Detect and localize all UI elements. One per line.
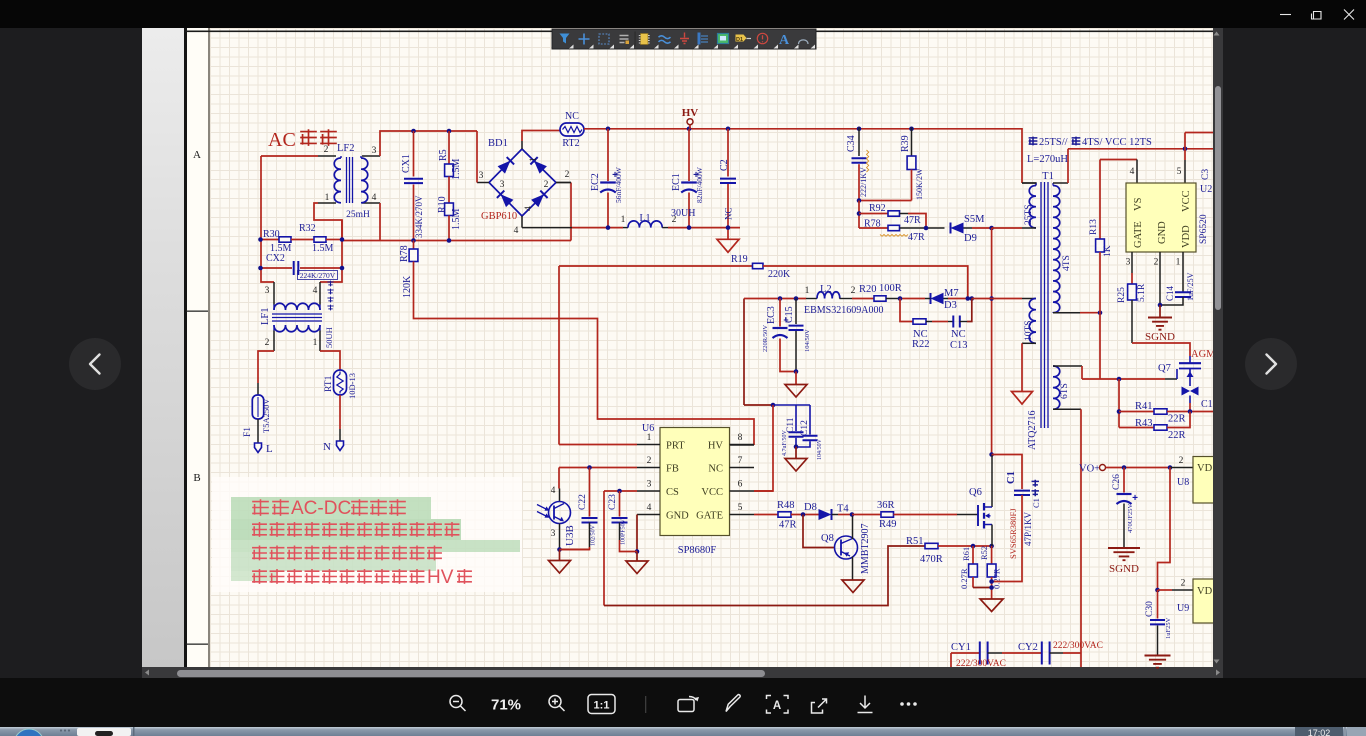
svg-text:36R: 36R bbox=[877, 500, 895, 511]
svg-text:HV: HV bbox=[682, 107, 699, 119]
svg-text:C22: C22 bbox=[578, 494, 588, 510]
svg-text:C13: C13 bbox=[950, 340, 968, 351]
svg-text:D1: D1 bbox=[736, 37, 743, 43]
svg-text:R49: R49 bbox=[879, 519, 897, 530]
svg-text:U9: U9 bbox=[1177, 603, 1189, 614]
svg-text:SVS65R380FJ: SVS65R380FJ bbox=[1008, 508, 1018, 559]
svg-text:C15: C15 bbox=[784, 306, 795, 323]
svg-text:50UH: 50UH bbox=[324, 327, 334, 348]
svg-text:2: 2 bbox=[1179, 456, 1184, 466]
svg-text:2: 2 bbox=[647, 456, 652, 466]
svg-text:1: 1 bbox=[1176, 258, 1181, 268]
svg-text:GBP610: GBP610 bbox=[481, 211, 517, 222]
svg-text:150K/2W: 150K/2W bbox=[915, 168, 924, 200]
svg-text:VD: VD bbox=[1197, 586, 1213, 597]
svg-text:102/50V: 102/50V bbox=[591, 524, 597, 546]
svg-text:R52: R52 bbox=[979, 546, 989, 560]
svg-text:CX1: CX1 bbox=[401, 154, 412, 173]
svg-text:T5A250V: T5A250V bbox=[261, 398, 271, 433]
svg-text:3: 3 bbox=[479, 171, 484, 181]
svg-text:1: 1 bbox=[647, 433, 652, 443]
svg-text:VD: VD bbox=[1197, 463, 1213, 474]
svg-text:D3: D3 bbox=[944, 300, 957, 311]
svg-text:4: 4 bbox=[524, 206, 534, 211]
svg-text:BD1: BD1 bbox=[488, 138, 508, 149]
svg-text:R19: R19 bbox=[731, 254, 748, 265]
svg-text:3: 3 bbox=[551, 529, 556, 539]
svg-text:VO+: VO+ bbox=[1079, 464, 1100, 475]
svg-text:3: 3 bbox=[1126, 258, 1131, 268]
svg-text:U2: U2 bbox=[1200, 184, 1212, 195]
svg-text:3: 3 bbox=[372, 146, 377, 156]
svg-text:4TS: 4TS bbox=[1062, 255, 1072, 271]
svg-text:R20: R20 bbox=[859, 284, 877, 295]
svg-text:0.27R: 0.27R bbox=[959, 568, 969, 589]
svg-text:2: 2 bbox=[565, 170, 570, 180]
svg-text:GATE: GATE bbox=[1133, 221, 1144, 248]
svg-text:1.5M: 1.5M bbox=[451, 209, 462, 231]
svg-text:C3: C3 bbox=[1201, 169, 1211, 180]
svg-text:1: 1 bbox=[529, 157, 539, 162]
svg-text:HV: HV bbox=[427, 567, 454, 588]
svg-text:470R: 470R bbox=[920, 554, 943, 565]
svg-text:100R: 100R bbox=[879, 283, 902, 294]
svg-text:7: 7 bbox=[738, 456, 743, 466]
svg-text:2: 2 bbox=[1181, 579, 1186, 589]
svg-text:C1: C1 bbox=[1031, 498, 1041, 508]
svg-text:2: 2 bbox=[265, 338, 270, 348]
svg-text:C1: C1 bbox=[1006, 471, 1017, 484]
svg-text:CY1: CY1 bbox=[951, 642, 971, 653]
svg-text:Q7: Q7 bbox=[1158, 363, 1171, 374]
svg-text:1uF/25V: 1uF/25V bbox=[1186, 272, 1195, 301]
svg-text:104/50V: 104/50V bbox=[817, 438, 823, 460]
svg-text:A: A bbox=[193, 149, 201, 161]
svg-text:2: 2 bbox=[1154, 258, 1159, 268]
svg-text:GND: GND bbox=[1157, 221, 1168, 244]
svg-text:LF1: LF1 bbox=[260, 307, 271, 325]
svg-text:L=270uH: L=270uH bbox=[1027, 154, 1068, 165]
svg-text:ATQ2716: ATQ2716 bbox=[1027, 411, 1038, 450]
svg-text:S5M: S5M bbox=[964, 214, 985, 225]
svg-text:47R: 47R bbox=[908, 232, 925, 243]
svg-text:A: A bbox=[773, 700, 781, 712]
svg-text:56nF/400W: 56nF/400W bbox=[614, 166, 623, 203]
svg-text:L: L bbox=[266, 443, 273, 455]
svg-text:25TS: 25TS bbox=[1024, 204, 1034, 225]
svg-text:220R/50V: 220R/50V bbox=[762, 325, 769, 352]
svg-text:220K: 220K bbox=[768, 269, 791, 280]
svg-text:R22: R22 bbox=[912, 339, 930, 350]
svg-text:R43: R43 bbox=[1135, 418, 1153, 429]
svg-text:R13: R13 bbox=[1089, 219, 1099, 235]
svg-text:RT2: RT2 bbox=[562, 138, 579, 149]
svg-text:Q6: Q6 bbox=[969, 487, 982, 498]
svg-text:0.27R: 0.27R bbox=[992, 568, 1002, 589]
svg-text:PRT: PRT bbox=[666, 441, 685, 452]
svg-text:R30: R30 bbox=[263, 229, 280, 240]
svg-text:NC: NC bbox=[724, 207, 734, 220]
svg-text:2: 2 bbox=[544, 180, 549, 190]
svg-text:R78: R78 bbox=[399, 245, 410, 262]
svg-text:T4: T4 bbox=[837, 504, 849, 515]
svg-text:4.7uF/50V: 4.7uF/50V bbox=[782, 429, 788, 456]
svg-text:R51: R51 bbox=[906, 536, 924, 547]
svg-text:Q8: Q8 bbox=[821, 533, 834, 544]
svg-text:EC1: EC1 bbox=[671, 173, 682, 191]
svg-text:NC: NC bbox=[708, 464, 723, 475]
svg-text:1K: 1K bbox=[1103, 245, 1113, 257]
svg-text:CX2: CX2 bbox=[266, 253, 285, 264]
svg-text:+: + bbox=[1132, 493, 1138, 504]
svg-text:5.1R: 5.1R bbox=[1137, 283, 1147, 302]
svg-text:AC: AC bbox=[268, 129, 296, 151]
svg-text:C34: C34 bbox=[846, 135, 857, 152]
svg-text:47P/1KV: 47P/1KV bbox=[1023, 511, 1033, 546]
svg-text:LF2: LF2 bbox=[337, 143, 355, 154]
svg-text:R32: R32 bbox=[299, 223, 316, 234]
svg-text:100PF50V: 100PF50V bbox=[621, 518, 627, 545]
svg-text:AGM: AGM bbox=[1191, 349, 1216, 360]
svg-text:4: 4 bbox=[313, 286, 318, 296]
svg-text:GND: GND bbox=[666, 511, 689, 522]
svg-text:47R: 47R bbox=[779, 520, 797, 531]
svg-text:N: N bbox=[323, 441, 331, 453]
svg-text:2: 2 bbox=[851, 286, 856, 296]
svg-text:4: 4 bbox=[372, 193, 377, 203]
svg-text:L2: L2 bbox=[820, 284, 832, 295]
svg-text:L1: L1 bbox=[639, 213, 650, 224]
svg-text:R10: R10 bbox=[437, 196, 448, 213]
svg-text:MMBT2907: MMBT2907 bbox=[860, 523, 871, 574]
svg-text:82uF/400W: 82uF/400W bbox=[695, 166, 704, 203]
svg-text:334K/270V: 334K/270V bbox=[414, 195, 424, 238]
svg-text:C26: C26 bbox=[1112, 474, 1122, 490]
svg-text:3: 3 bbox=[500, 180, 505, 190]
svg-text:1.5M: 1.5M bbox=[312, 243, 334, 254]
svg-text:25TS//: 25TS// bbox=[1039, 137, 1068, 148]
svg-text:NC: NC bbox=[951, 329, 966, 340]
svg-text:NC: NC bbox=[565, 111, 579, 122]
svg-text:1: 1 bbox=[621, 215, 626, 225]
svg-text:D8: D8 bbox=[804, 502, 817, 513]
svg-text:AC-DC: AC-DC bbox=[291, 498, 351, 519]
svg-text:C2: C2 bbox=[719, 159, 730, 171]
svg-text:10TS: 10TS bbox=[1024, 320, 1034, 341]
svg-text:VCC: VCC bbox=[1181, 190, 1192, 212]
svg-text:4: 4 bbox=[551, 486, 556, 496]
svg-text:SP8680F: SP8680F bbox=[678, 545, 717, 556]
svg-text:5: 5 bbox=[738, 503, 743, 513]
svg-text:3: 3 bbox=[265, 286, 270, 296]
svg-text:10D-13: 10D-13 bbox=[347, 373, 357, 399]
svg-text:104/50V: 104/50V bbox=[804, 329, 811, 352]
svg-text:4: 4 bbox=[1130, 167, 1135, 177]
svg-text:1uF25V: 1uF25V bbox=[1165, 617, 1172, 639]
svg-text:HV: HV bbox=[708, 441, 724, 452]
svg-text:B: B bbox=[193, 472, 200, 484]
svg-text:1: 1 bbox=[313, 338, 318, 348]
svg-text:R5: R5 bbox=[438, 149, 449, 161]
svg-text:GATE: GATE bbox=[696, 511, 723, 522]
svg-text:R41: R41 bbox=[1135, 401, 1153, 412]
svg-text:EC2: EC2 bbox=[590, 173, 601, 191]
svg-text:1:1: 1:1 bbox=[594, 700, 610, 712]
svg-text:4: 4 bbox=[647, 503, 652, 513]
svg-text:22R: 22R bbox=[1168, 414, 1186, 425]
svg-text:4TS/ VCC 12TS: 4TS/ VCC 12TS bbox=[1082, 137, 1152, 148]
svg-text:224K/270V: 224K/270V bbox=[300, 271, 336, 280]
svg-text:2: 2 bbox=[324, 145, 329, 155]
svg-text:6TS: 6TS bbox=[1060, 383, 1070, 399]
svg-text:222/300VAC: 222/300VAC bbox=[1053, 641, 1103, 651]
svg-text:T1: T1 bbox=[1042, 171, 1054, 182]
svg-text:1: 1 bbox=[325, 193, 330, 203]
svg-text:C30: C30 bbox=[1145, 601, 1155, 617]
svg-text:1.5M: 1.5M bbox=[451, 159, 462, 181]
svg-text:EC3: EC3 bbox=[766, 306, 777, 324]
svg-text:SGND: SGND bbox=[1109, 563, 1139, 575]
svg-text:222/1KV: 222/1KV bbox=[859, 167, 868, 197]
svg-text:SGND: SGND bbox=[1145, 331, 1175, 343]
svg-text:47R: 47R bbox=[904, 215, 921, 226]
svg-text:17:02: 17:02 bbox=[1308, 728, 1331, 736]
svg-text:470UF25V: 470UF25V bbox=[1127, 503, 1134, 533]
svg-text:A: A bbox=[779, 33, 790, 48]
svg-text:U3B: U3B bbox=[564, 525, 576, 546]
svg-text:VCC: VCC bbox=[701, 487, 723, 498]
svg-text:VS: VS bbox=[1133, 197, 1144, 211]
svg-text:F1: F1 bbox=[243, 427, 253, 437]
svg-text:1: 1 bbox=[805, 286, 810, 296]
svg-text:R48: R48 bbox=[777, 500, 795, 511]
svg-text:EBMS321609A000: EBMS321609A000 bbox=[804, 305, 883, 316]
svg-text:120K: 120K bbox=[402, 275, 413, 298]
svg-text:SP6520: SP6520 bbox=[1199, 214, 1209, 244]
svg-text:R25: R25 bbox=[1117, 287, 1127, 303]
svg-text:C14: C14 bbox=[1165, 285, 1175, 301]
svg-text:C23: C23 bbox=[608, 494, 618, 510]
svg-text:M7: M7 bbox=[944, 288, 959, 299]
svg-text:25mH: 25mH bbox=[346, 210, 370, 220]
svg-text:FB: FB bbox=[666, 464, 679, 475]
svg-text:U8: U8 bbox=[1177, 477, 1189, 488]
svg-text:22R: 22R bbox=[1168, 430, 1186, 441]
svg-text:4: 4 bbox=[514, 226, 519, 236]
svg-text:RT1: RT1 bbox=[324, 375, 334, 392]
svg-text:R61: R61 bbox=[961, 547, 971, 561]
svg-text:D9: D9 bbox=[964, 233, 977, 244]
svg-text:8: 8 bbox=[738, 433, 743, 443]
svg-text:6: 6 bbox=[738, 480, 743, 490]
svg-text:R92: R92 bbox=[869, 203, 886, 214]
svg-text:30UH: 30UH bbox=[671, 208, 695, 219]
svg-text:222/300VAC: 222/300VAC bbox=[956, 659, 1006, 669]
svg-text:VDD: VDD bbox=[1181, 225, 1192, 248]
svg-text:U6: U6 bbox=[642, 423, 654, 434]
svg-text:71%: 71% bbox=[491, 697, 521, 714]
svg-text:CY2: CY2 bbox=[1018, 642, 1038, 653]
svg-text:3: 3 bbox=[647, 480, 652, 490]
svg-text:CS: CS bbox=[666, 487, 679, 498]
svg-text:R78: R78 bbox=[864, 219, 881, 230]
svg-text:R39: R39 bbox=[900, 135, 911, 152]
svg-text:C12: C12 bbox=[800, 420, 810, 436]
svg-text:5: 5 bbox=[1177, 167, 1182, 177]
